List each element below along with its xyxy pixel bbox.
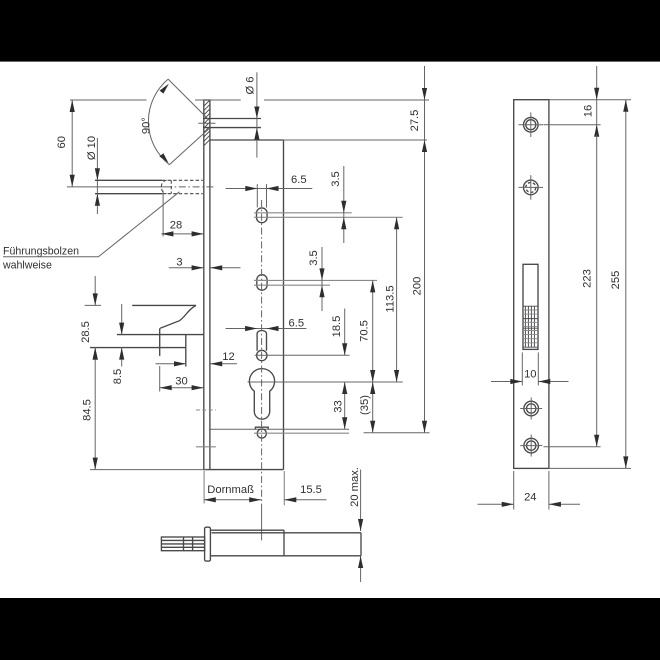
svg-text:27.5: 27.5	[409, 110, 421, 132]
svg-text:255: 255	[610, 271, 622, 290]
svg-text:70.5: 70.5	[358, 320, 370, 342]
svg-text:wahlweise: wahlweise	[2, 259, 52, 271]
svg-text:16: 16	[582, 105, 594, 117]
hook latch horizontal lines	[90, 335, 203, 367]
dimension 6.5 (upper slot width)	[226, 174, 313, 191]
svg-text:200: 200	[411, 277, 423, 296]
dimension 3.5 (lower)	[308, 247, 324, 311]
dimension 200 (case height)	[411, 140, 427, 433]
bottom fixing hole with bracket	[209, 427, 430, 438]
vertical centre line through holes (dash-dot)	[261, 200, 263, 505]
svg-text:8.5: 8.5	[112, 369, 124, 385]
lower slot with round hole (exclamation shape)	[255, 331, 350, 361]
90 degree swing arc with arrowheads	[141, 79, 170, 164]
dimension 20 max. with underline	[349, 467, 363, 582]
latch window opening	[523, 264, 538, 349]
svg-text:33: 33	[332, 400, 344, 412]
dimension &#216;10 label and leader (guide pin diameter)	[86, 136, 100, 214]
black bottom margin band	[0, 598, 660, 660]
centre line continuation through dead bolt	[261, 505, 263, 540]
grey fixing line pair at middle hole	[254, 280, 377, 285]
dimension 18.5	[331, 309, 348, 356]
svg-text:90°: 90°	[141, 117, 153, 134]
black top margin band	[0, 0, 660, 62]
bottom extension line of case	[90, 469, 209, 471]
dimension 70.5	[358, 280, 375, 382]
dimension 3 (faceplate thickness)	[169, 256, 241, 270]
dimension (35)	[359, 382, 375, 433]
latch bolt pivot pin through faceplate (two lines right of plate)	[198, 119, 261, 128]
case top extension line to the right	[284, 139, 428, 141]
label Fuehrungsbolzen wahlweise with leader line	[2, 192, 179, 272]
dimension 30	[160, 366, 204, 392]
dimension 10 (window width)	[491, 352, 569, 385]
dimension 223	[581, 135, 599, 447]
latch lever swing lines (open and closed position)	[168, 79, 210, 165]
svg-text:Führungsbolzen: Führungsbolzen	[3, 245, 79, 257]
svg-text:12: 12	[222, 351, 234, 363]
lock case body rectangle	[203, 140, 283, 470]
strike plate front view outline	[514, 100, 549, 469]
dimension 27.5 (top edge to case top)	[409, 66, 427, 140]
euro profile cylinder hole	[248, 369, 403, 420]
dimension 84.5	[82, 348, 98, 470]
dimension Dornmass (backset)	[204, 471, 261, 504]
dimension 24 (plate width)	[478, 471, 581, 510]
dimension 60 vertical (left)	[56, 100, 75, 187]
svg-text:28.5: 28.5	[80, 321, 92, 343]
guide pin solid outline (protruding left part)	[67, 180, 165, 193]
dimension 8.5	[112, 304, 124, 384]
top reference line at latch pin level	[70, 99, 429, 101]
svg-text:Dornmaß: Dornmaß	[207, 484, 254, 496]
svg-text:(35): (35)	[359, 395, 371, 415]
dimension 113.5	[385, 217, 400, 382]
extension line from bottom hole for dimension 223	[544, 446, 601, 448]
extension line from top hole for dimension 16	[544, 124, 601, 126]
svg-text:Ø 10: Ø 10	[86, 136, 98, 160]
svg-text:3.5: 3.5	[308, 250, 320, 266]
svg-text:30: 30	[175, 375, 187, 387]
upper oblong slot on centre line	[257, 184, 268, 223]
svg-text:15.5: 15.5	[300, 484, 322, 496]
svg-text:223: 223	[581, 269, 593, 288]
svg-text:20 max.: 20 max.	[349, 467, 361, 507]
top extension line for dimension 255	[549, 99, 631, 101]
dimension 12	[156, 351, 238, 366]
dimension &#216;6 (latch pivot pin)	[244, 72, 259, 157]
svg-text:6.5: 6.5	[291, 174, 307, 186]
dimension 28 (guide pin length)	[161, 191, 203, 237]
guide pin centre dash-dot line	[165, 186, 214, 188]
dimension 255	[610, 100, 628, 469]
bottom extension line for dimension 255	[549, 467, 631, 469]
svg-text:113.5: 113.5	[385, 285, 397, 312]
dead bolt collar at faceplate	[205, 527, 211, 561]
dimension 6.5 (lower slot width)	[226, 318, 307, 332]
latch bolt serration inside window	[523, 306, 538, 347]
svg-text:18.5: 18.5	[331, 316, 343, 338]
faceplate side view (vertical double line, hatched top section)	[203, 100, 210, 470]
screw hole top 1 with centre cross	[519, 112, 544, 137]
svg-text:60: 60	[56, 136, 68, 148]
dead bolt body	[210, 530, 361, 556]
svg-text:10: 10	[524, 369, 536, 381]
svg-text:84.5: 84.5	[82, 399, 94, 421]
dimension 28.5	[80, 276, 101, 360]
svg-text:6.5: 6.5	[289, 318, 305, 330]
guide pin hidden dashed outline inside case	[161, 180, 203, 193]
svg-text:28: 28	[170, 219, 182, 231]
svg-text:24: 24	[524, 491, 536, 503]
svg-text:3.5: 3.5	[330, 171, 342, 187]
grey fixing line pair at upper slot	[254, 213, 403, 218]
grey projection tick at lower holes	[196, 410, 216, 447]
screw hole bottom 2 with centre cross	[520, 435, 542, 457]
svg-text:Ø 6: Ø 6	[244, 76, 256, 94]
screw hole bottom 1 with centre cross	[520, 398, 542, 420]
middle oblong hole on centre line	[254, 275, 269, 291]
screw hole top 2 with dashed inner circle	[519, 175, 544, 200]
dead bolt serrated tail	[161, 537, 204, 551]
dimension 15.5	[284, 471, 326, 505]
hook latch top edge	[132, 305, 196, 356]
dimension 16	[582, 66, 599, 137]
dimension 33	[332, 382, 347, 429]
dimension 3.5 (upper)	[330, 166, 346, 243]
svg-text:3: 3	[176, 256, 182, 268]
